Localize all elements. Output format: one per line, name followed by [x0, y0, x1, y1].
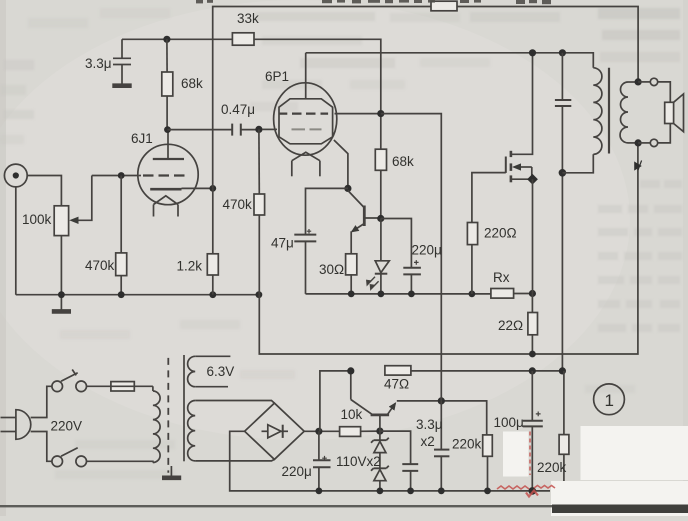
- node transistor base 68k LED: [377, 215, 384, 222]
- svg-text:220k: 220k: [537, 460, 567, 475]
- ground symbol front: [52, 295, 71, 312]
- capacitor 3.3u x2 first: [380, 431, 418, 491]
- winding HV secondary: [188, 401, 275, 461]
- svg-text:220k: 220k: [452, 437, 482, 452]
- svg-text:220Ω: 220Ω: [484, 226, 517, 241]
- node g2 B+: [377, 110, 384, 117]
- node primary bottom: [559, 169, 567, 177]
- wire jack to pot top: [27, 176, 61, 206]
- potentiometer 100k: [54, 176, 92, 295]
- svg-text:220μ: 220μ: [282, 464, 312, 479]
- svg-text:x2: x2: [421, 434, 435, 449]
- node secondary top: [635, 78, 642, 85]
- resistor 68k 6J1 plate load: [162, 39, 173, 129]
- node 22ohm ground: [529, 351, 536, 358]
- wire ground bus to bottom ground line: [259, 143, 638, 354]
- svg-text:68k: 68k: [392, 154, 414, 169]
- capacitor 3.3u x2 second: [434, 401, 449, 491]
- node 6P1 grid: [255, 126, 262, 133]
- node 30ohm bottom: [348, 291, 355, 298]
- node source 22ohm: [529, 290, 536, 297]
- svg-text:1: 1: [605, 391, 614, 410]
- wire feedback top right: [457, 7, 638, 82]
- svg-text:6P1: 6P1: [265, 69, 289, 84]
- node LED bottom: [378, 291, 385, 298]
- mains transformer primary: [87, 386, 161, 462]
- terminal top: [638, 78, 670, 102]
- capacitor 0.47u coupling: [232, 124, 259, 136]
- node 220u bottom: [408, 291, 415, 298]
- bottom dark band right: [552, 505, 688, 514]
- wire cathode return line: [306, 293, 491, 295]
- svg-text:68k: 68k: [181, 76, 203, 91]
- resistor Rx: [491, 289, 514, 299]
- wire feedback top: [213, 7, 431, 189]
- resistor feedback top: [431, 1, 457, 11]
- white patch right middle: [581, 426, 688, 480]
- svg-text:110Vx2: 110Vx2: [336, 454, 381, 469]
- resistor 68k to 6P1 g2 node: [375, 114, 386, 219]
- terminal bottom: [638, 124, 670, 147]
- capacitor 220u bias: [403, 260, 421, 294]
- capacitor 47u cathode: [294, 229, 316, 294]
- wire switch bottom to plug: [31, 432, 52, 462]
- resistor 220k right: [559, 371, 569, 484]
- winding 6.3V: [188, 356, 231, 386]
- output transformer secondary: [620, 82, 638, 143]
- node ground bus end: [256, 291, 263, 298]
- transistor regulator Q3: [351, 371, 396, 431]
- ground tick on speaker return: [635, 161, 642, 171]
- svg-text:30Ω: 30Ω: [319, 262, 344, 277]
- wire plug to switch top: [31, 386, 52, 417]
- node snubber cap top: [559, 49, 566, 56]
- node 6J1 cathode: [209, 185, 216, 192]
- svg-text:47μ: 47μ: [271, 236, 294, 251]
- wire emitter output: [397, 401, 487, 435]
- svg-text:1.2k: 1.2k: [177, 259, 203, 274]
- svg-text:33k: 33k: [237, 11, 259, 26]
- 6P1 control grid g1: [262, 128, 277, 130]
- node emitter 3.3u: [438, 397, 445, 404]
- AC plug: [1, 410, 31, 440]
- svg-text:100μ: 100μ: [494, 415, 524, 430]
- svg-text:220μ: 220μ: [412, 243, 442, 258]
- resistor 220k left: [483, 435, 493, 491]
- svg-text:470k: 470k: [85, 258, 115, 273]
- node 220ohm bottom: [469, 291, 476, 298]
- circled figure number 1: [594, 384, 625, 415]
- white patch bottom right: [551, 481, 688, 516]
- node drain plate line: [529, 49, 536, 56]
- ground bus front: [16, 294, 259, 296]
- wire jack shield to ground bus: [15, 187, 17, 295]
- resistor 220 ohm gate: [467, 173, 505, 294]
- wire 6J1 plate to coupling cap: [168, 129, 233, 131]
- MOSFET Q2: [506, 53, 538, 294]
- transformer core: [608, 68, 610, 154]
- capacitor across primary: [555, 53, 571, 371]
- capacitor 100u: [523, 371, 543, 491]
- resistor 30 ohm emitter: [346, 254, 357, 294]
- wire regulated B+ riser: [381, 114, 442, 401]
- node pot bottom: [58, 291, 65, 298]
- node 6J1 plate: [164, 126, 171, 133]
- node grid 6J1: [118, 172, 125, 179]
- svg-text:10k: 10k: [341, 407, 363, 422]
- svg-text:22Ω: 22Ω: [498, 318, 523, 333]
- capacitor 220u psu: [313, 431, 331, 491]
- zener diodes 110Vx2: [371, 431, 389, 491]
- resistor 33k: [232, 33, 380, 114]
- resistor 470k grid leak 6P1: [254, 129, 265, 294]
- wire 6P1 cathode lead: [334, 140, 348, 188]
- node collector B+: [347, 367, 354, 374]
- node B+ front: [163, 36, 170, 43]
- svg-text:100k: 100k: [22, 212, 52, 227]
- 6P1 anode structure: [279, 53, 333, 144]
- capacitor 3.3u decoupling: [112, 39, 131, 85]
- transistor bias servo Q1: [348, 191, 381, 254]
- node 6P1 cathode: [344, 185, 351, 192]
- node raw B+: [315, 428, 322, 435]
- svg-text:470k: 470k: [223, 197, 253, 212]
- resistor 10k: [340, 427, 380, 437]
- svg-text:3.3μ: 3.3μ: [416, 417, 443, 432]
- node B+ opt: [559, 367, 566, 374]
- wire wiper to grid node: [92, 175, 139, 177]
- fuse: [87, 382, 153, 391]
- tube 6P1 envelope: [274, 83, 337, 155]
- svg-text:0.47μ: 0.47μ: [221, 102, 255, 117]
- resistor 470k grid leak 6J1: [116, 176, 127, 295]
- bottom scan line: [0, 505, 688, 507]
- switch top: [52, 370, 87, 392]
- resistor 22 ohm: [528, 294, 538, 355]
- wire base node to 220u: [381, 219, 412, 268]
- LED bias reference: [367, 219, 389, 294]
- resistor 1.2k cathode 6J1: [207, 188, 218, 294]
- wire cathode node to 47u: [306, 188, 348, 234]
- mains transformer core dashed: [167, 358, 169, 473]
- 6P1 heater: [292, 152, 320, 176]
- switch bottom: [52, 448, 87, 467]
- mains transformer core solid: [183, 355, 185, 461]
- wire B+ front node: [122, 38, 232, 40]
- input jack J1: [4, 164, 27, 187]
- wire bridge negative to rail: [230, 431, 550, 491]
- node zener base: [376, 428, 383, 435]
- bridge rectifier: [245, 403, 305, 459]
- node 470k bottom: [118, 291, 125, 298]
- svg-text:6J1: 6J1: [131, 131, 153, 146]
- node 1.2k bottom: [209, 291, 216, 298]
- svg-text:47Ω: 47Ω: [384, 377, 409, 392]
- svg-text:Rx: Rx: [493, 270, 510, 285]
- svg-text:220V: 220V: [51, 419, 83, 434]
- transformer shield ground: [162, 466, 181, 478]
- tube 6J1: [138, 130, 198, 217]
- node secondary bottom: [635, 139, 642, 146]
- wire plate line: [306, 53, 594, 68]
- white patch left of 100u: [503, 432, 529, 477]
- ground rail nodes: [316, 487, 537, 495]
- speaker: [665, 94, 684, 132]
- node B+ 100u: [529, 367, 536, 374]
- red dashed mark vertical: [497, 432, 555, 497]
- wire raw B+ riser: [320, 371, 351, 431]
- output transformer primary: [562, 68, 601, 173]
- wire bridge positive: [304, 430, 339, 432]
- wire Rx to source node: [514, 293, 533, 295]
- resistor 47 ohm: [385, 366, 563, 375]
- wire 6J1 cathode to feedback line: [182, 187, 213, 189]
- svg-text:3.3μ: 3.3μ: [85, 56, 112, 71]
- 6P1 screen grid g2: [279, 112, 381, 114]
- top edge print fragments: [196, 0, 551, 4]
- svg-text:6.3V: 6.3V: [207, 364, 235, 379]
